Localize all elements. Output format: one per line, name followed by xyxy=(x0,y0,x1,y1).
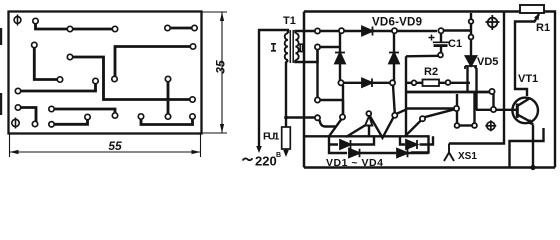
wire terminal 4 dogleg xyxy=(320,120,337,127)
junction bridge lower left xyxy=(338,80,343,85)
pad Y xyxy=(57,77,62,82)
svg-text:35: 35 xyxy=(214,60,228,74)
wire V crossing xyxy=(370,116,394,138)
diode VD2 xyxy=(348,149,360,158)
C1 polarity plus sign xyxy=(429,35,435,41)
wire R2 right lead xyxy=(439,82,470,84)
bottom bus wire A xyxy=(305,136,429,152)
wire diagonal junction to lower horizontal xyxy=(397,109,407,114)
wire lower diode row middle xyxy=(360,152,396,154)
svg-text:220: 220 xyxy=(255,154,277,169)
transformer T1 core xyxy=(289,30,291,63)
mount screw symbol bottom right xyxy=(485,120,496,131)
wire R2 left lead xyxy=(406,82,423,84)
bottom bus wire xyxy=(304,166,555,168)
wire terminal 3 to web xyxy=(320,99,343,101)
mid rail wire xyxy=(406,91,490,94)
wire triangle to bus xyxy=(368,126,370,137)
junction VD5 top xyxy=(469,35,474,40)
pad E xyxy=(192,25,197,30)
pad X xyxy=(32,121,37,126)
PCB board outline xyxy=(9,12,202,134)
wire secondary bottom lead xyxy=(295,50,317,63)
terminal bottom pair right xyxy=(472,123,477,128)
svg-text:55: 55 xyxy=(108,139,122,153)
wire between lower terminals xyxy=(460,124,473,126)
diode VD3 xyxy=(406,140,417,149)
wire C1 to left vertical xyxy=(406,55,438,58)
diode VD8 xyxy=(389,53,399,64)
wire top rail to C1 xyxy=(440,31,442,42)
pad B xyxy=(67,26,72,31)
svg-text:VD5: VD5 xyxy=(477,56,498,68)
trace 2 (pad D to pad E) xyxy=(168,27,195,30)
pad U xyxy=(190,44,195,49)
terminal 2 (secondary bottom) xyxy=(315,44,320,49)
svg-text:VD1 ~ VD4: VD1 ~ VD4 xyxy=(326,157,383,169)
wire lower bridge horizontal xyxy=(343,82,392,84)
svg-text:R2: R2 xyxy=(424,66,438,78)
dimension arrow top (35) xyxy=(220,12,224,21)
wire bridge to web left xyxy=(342,85,344,115)
dimension lines 35 (vertical) xyxy=(202,12,227,133)
wire top border to VD5 xyxy=(470,13,472,66)
wire emitter loop to bottom bus xyxy=(510,128,544,168)
pad F xyxy=(32,42,37,47)
wire upper right diode loop xyxy=(400,136,433,144)
pad N xyxy=(49,106,54,111)
board outline box top edge / positive rail xyxy=(304,10,520,13)
pad A xyxy=(33,18,38,23)
emitter arrowhead xyxy=(527,119,534,126)
wire mid rail to lower terminal xyxy=(473,92,475,123)
terminal bottom pair left xyxy=(455,123,460,128)
trace 11 (pad Q to pad S) xyxy=(141,117,193,125)
top rail wire xyxy=(320,30,437,32)
wire left bridge vertical xyxy=(339,33,341,82)
wire mid rail junction to base junction xyxy=(492,94,494,107)
svg-text:R1: R1 xyxy=(536,22,550,34)
wire fuse to board terminal xyxy=(286,116,315,118)
diode VD6 xyxy=(360,27,373,36)
mount screw symbol top right xyxy=(486,15,500,30)
junction dot on bottom bus xyxy=(530,165,535,170)
transistor VT1 base bar xyxy=(516,104,519,118)
dimension arrow bottom (35) xyxy=(220,124,224,133)
wire terminal 2 to terminal 3 xyxy=(316,50,318,98)
svg-text:XS1: XS1 xyxy=(458,151,477,162)
mains arrowhead left xyxy=(256,146,262,153)
wire lower horizontal to terminal xyxy=(406,107,454,109)
wire vertical C1/R2 branch to bottom bus xyxy=(405,56,407,136)
pad Q xyxy=(138,114,143,119)
pad O xyxy=(49,122,54,127)
transistor VT1 body xyxy=(512,98,538,124)
wire diagonal triangle to bus left xyxy=(346,126,365,138)
trace 9 (pad N to pad P) xyxy=(52,109,116,116)
R1 wiper arrowhead xyxy=(534,14,539,21)
pad M xyxy=(15,105,20,110)
wire fuse to mains xyxy=(285,149,287,151)
svg-text:C1: C1 xyxy=(448,38,462,50)
trace 1 (pad A to pad C via pad B) xyxy=(36,21,116,29)
pad S xyxy=(190,114,195,119)
wire VD5 cathode to mid rail xyxy=(466,66,468,92)
trace 7 (pad J to pad R) xyxy=(167,79,170,117)
junction R2 left xyxy=(412,80,417,85)
fuse FU1 body xyxy=(282,127,291,149)
wire C1 bottom lead xyxy=(440,46,442,53)
plug symbol triangle xyxy=(365,116,372,126)
wire diagonal terminal to bus xyxy=(405,121,421,137)
pad W xyxy=(85,114,90,119)
mounting hole top-left xyxy=(14,15,21,26)
svg-text:T1: T1 xyxy=(283,15,296,27)
junction web middle xyxy=(366,111,371,116)
wire diagonal junction to bus xyxy=(329,119,342,136)
junction C1 bottom xyxy=(438,53,443,58)
terminal 3 xyxy=(315,97,320,102)
trace 10 (pad O to pad W) xyxy=(52,117,88,124)
wire bridge to web right xyxy=(393,85,395,113)
svg-text:VT1: VT1 xyxy=(518,73,538,85)
pad R xyxy=(165,114,170,119)
junction top rail right xyxy=(392,28,397,33)
board outline box left edge xyxy=(303,12,306,168)
svg-text:B: B xyxy=(276,152,281,159)
capacitor C1 top plate xyxy=(433,41,450,43)
transistor VT1 collector lead xyxy=(517,99,529,106)
pad C xyxy=(112,26,117,31)
scan artifact left edge lower xyxy=(0,93,2,115)
junction dot on fuse wire xyxy=(284,116,288,120)
wire web vertical to junction xyxy=(342,100,344,115)
junction R2 right xyxy=(446,80,451,85)
diode VD7 xyxy=(335,53,345,64)
svg-text:FU1: FU1 xyxy=(263,131,280,143)
mounting hole bottom-left xyxy=(12,118,19,129)
diode VD9 xyxy=(362,79,372,88)
trace 6 (pad K to pad H) xyxy=(18,81,96,91)
pad H xyxy=(93,78,98,83)
wire terminal 2 to bridge xyxy=(320,46,340,48)
wire lower diode row left end xyxy=(329,136,347,153)
transformer T1 secondary winding II xyxy=(295,33,298,60)
junction web left xyxy=(340,114,345,119)
diode VD1 xyxy=(340,140,351,149)
pad P xyxy=(112,113,117,118)
terminal lower mid xyxy=(454,106,459,111)
scan artifact left edge upper xyxy=(0,28,2,45)
pad G xyxy=(67,54,72,59)
resistor R1 body xyxy=(520,5,544,13)
dimension lines 55 (horizontal) xyxy=(10,134,201,157)
terminal 4 (fuse side) xyxy=(315,115,320,120)
wire primary to fuse xyxy=(286,60,288,127)
junction top border tap xyxy=(469,19,474,24)
wire emitter to bottom bus xyxy=(532,125,534,168)
top rail wire right part xyxy=(444,29,471,31)
pad I xyxy=(112,76,117,81)
junction mid rail xyxy=(489,89,494,94)
junction top rail C1 xyxy=(438,28,443,33)
wire VD5 to base wire xyxy=(475,67,477,110)
transformer T1 primary winding I xyxy=(285,33,288,60)
resistor R2 body xyxy=(423,80,440,87)
terminal web far right xyxy=(420,116,425,121)
wire upper left diode loop xyxy=(329,137,374,145)
board outline box right edge with wire to XS1 xyxy=(449,12,504,144)
socket XS1 symbol xyxy=(444,144,454,162)
label winding I xyxy=(271,44,276,51)
dimension arrow left (55) xyxy=(10,150,19,154)
pad D xyxy=(165,25,170,30)
zener diode VD5 xyxy=(465,56,477,69)
pad K xyxy=(15,88,20,93)
wire R1 right end down right side xyxy=(544,12,555,168)
dimension arrow right (55) xyxy=(192,150,201,154)
trace 3 (pad U to pad I) xyxy=(115,47,193,80)
terminal 1 (secondary top) xyxy=(315,28,320,33)
junction base wire xyxy=(491,107,496,112)
junction web right xyxy=(392,113,397,118)
mains input wire left (~220V) xyxy=(259,30,288,146)
pad J xyxy=(165,76,170,81)
wire secondary top lead xyxy=(295,31,315,33)
svg-text:VD6-VD9: VD6-VD9 xyxy=(372,17,422,29)
trace 8 (pad M to pad X) xyxy=(18,108,36,125)
trace 5 (pad G to pad T) xyxy=(70,57,193,100)
diode VD4 xyxy=(396,149,409,158)
wire diagonal terminal to terminal xyxy=(424,109,455,117)
wire right bridge vertical xyxy=(393,33,395,83)
R1 wiper wire to VT1 collector xyxy=(515,14,539,96)
junction top rail left xyxy=(339,28,344,33)
transistor VT1 emitter lead xyxy=(517,115,533,125)
capacitor C1 bottom plate xyxy=(434,44,448,47)
label ~220 xyxy=(243,158,253,160)
pad T xyxy=(190,97,195,102)
mains arrowhead right xyxy=(283,150,289,157)
wire lower diode row right end xyxy=(408,152,429,154)
trace 4 (pad F to pad Y) xyxy=(34,45,60,80)
wire vertical between terminals xyxy=(456,94,458,123)
junction bridge lower right xyxy=(390,80,395,85)
base wire to VT1 xyxy=(476,109,516,111)
label winding II xyxy=(299,44,303,51)
